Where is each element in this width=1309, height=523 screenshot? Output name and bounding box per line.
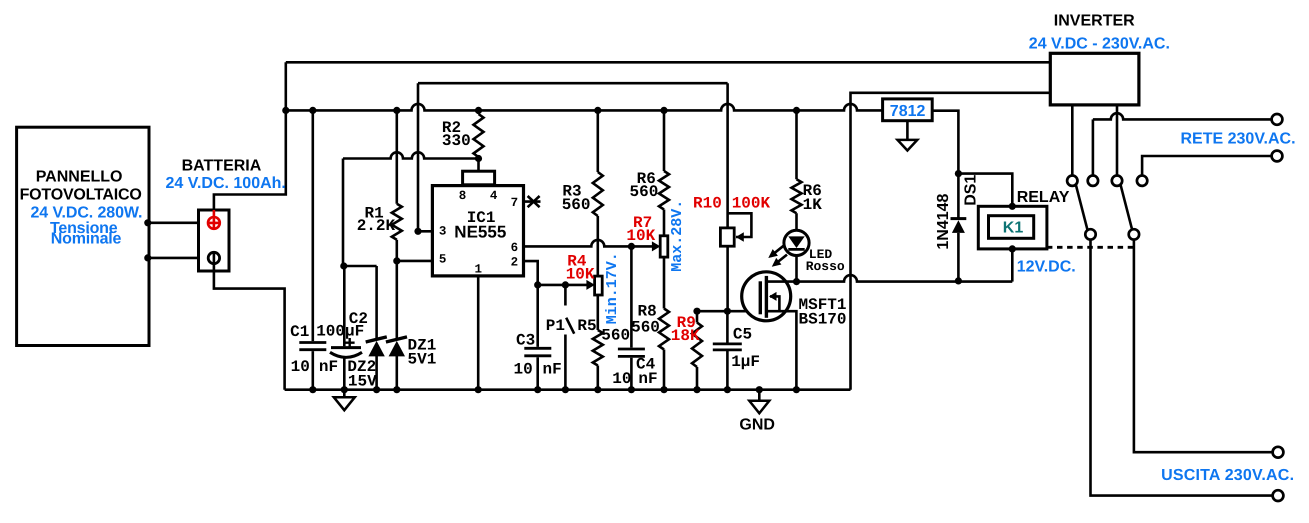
wire MOSFET gate line (697, 310, 760, 313)
svg-text:C5: C5 (733, 326, 752, 344)
svg-text:100K: 100K (732, 195, 771, 213)
switch blade 1 (1076, 185, 1088, 230)
pushbutton P1 (565, 285, 574, 390)
svg-text:C3: C3 (516, 332, 535, 350)
svg-text:7: 7 (511, 196, 519, 210)
node DZ2 feed junction (340, 262, 347, 269)
svg-text:5: 5 (439, 252, 447, 266)
svg-text:C1: C1 (290, 323, 309, 341)
node R2 bottom junction (475, 155, 482, 162)
capacitor C4 column (630, 246, 633, 389)
wire RETE lower line (1142, 156, 1271, 175)
svg-text:560: 560 (601, 327, 630, 345)
wire battery-positive riser x=286 (214, 62, 286, 210)
wire pin1 to ground bus (477, 276, 480, 390)
svg-text:GND: GND (739, 417, 775, 434)
svg-text:560: 560 (562, 196, 591, 214)
wire negative return riser x=850.5 to inverter (851, 93, 1051, 390)
mechanical link (dashed) (1047, 246, 1134, 249)
ground symbol GND (758, 390, 761, 401)
svg-text:nF: nF (543, 361, 562, 379)
svg-text:BATTERIA: BATTERIA (182, 158, 262, 175)
node gate line junctions (693, 308, 700, 315)
wire main +24V bus y=110 with hops (286, 104, 883, 111)
svg-text:560: 560 (630, 183, 659, 201)
resistor R9 (696, 311, 699, 390)
svg-text:PANNELLO: PANNELLO (36, 169, 123, 186)
relay K1 outer box (978, 206, 1047, 249)
battery positive terminal (red) (213, 210, 216, 217)
ground symbol below 7812 (906, 121, 909, 140)
node pin5 junction (393, 257, 400, 264)
svg-text:R5: R5 (577, 317, 596, 335)
svg-text:15V: 15V (348, 372, 377, 390)
svg-text:1: 1 (475, 263, 483, 277)
svg-text:INVERTER: INVERTER (1054, 13, 1135, 30)
wire pin3 riser x=418 (418, 83, 432, 231)
capacitor C2 (electrolytic) (331, 346, 361, 349)
capacitor C3 column (536, 285, 539, 390)
wire LED cathode to drain node (795, 256, 798, 282)
svg-text:2.2K: 2.2K (357, 217, 396, 235)
svg-text:8: 8 (459, 189, 467, 203)
svg-text:RELAY: RELAY (1017, 189, 1070, 206)
svg-text:Min.17V.: Min.17V. (604, 252, 621, 324)
wire bus y=83 from pin3 riser to R10 column (418, 82, 728, 85)
battery negative terminal (208, 252, 219, 263)
wire reset line y=158 with hops (343, 152, 479, 158)
ground symbol below C2 (343, 390, 346, 398)
svg-text:5V1: 5V1 (408, 350, 437, 368)
svg-text:10K: 10K (566, 266, 595, 284)
wire pin2 stub (524, 261, 538, 285)
svg-text:Rosso: Rosso (806, 259, 845, 274)
wire pin5 stub (397, 260, 433, 263)
svg-text:P1: P1 (546, 317, 565, 335)
terminal RETE upper (1272, 114, 1283, 125)
svg-text:nF: nF (319, 358, 338, 376)
capacitor C1 column (311, 110, 314, 389)
transistor MSFT1 BS170 (MOSFET) (742, 272, 791, 321)
svg-text:nF: nF (638, 370, 657, 388)
capacitor C5 column (726, 311, 729, 390)
svg-text:18K: 18K (671, 327, 700, 345)
wire ground bus y=389.7 (285, 388, 851, 391)
svg-text:DS1: DS1 (963, 175, 980, 206)
battery box (199, 210, 230, 271)
resistor R3 column, trimmer R4, resistor R5 (596, 110, 599, 389)
regulator 7812 box (883, 99, 933, 121)
wire USCITA lower leg (1091, 240, 1273, 496)
svg-text:10K: 10K (626, 227, 655, 245)
switch contact circles (lower row) (1085, 229, 1095, 239)
inverter box (1050, 53, 1139, 105)
wire pin7 no-connect stub (524, 200, 541, 203)
wire RETE upper line (1092, 119, 1095, 175)
trimmer R10 column (726, 83, 729, 311)
wire panel to battery minus (147, 257, 209, 260)
svg-text:10: 10 (612, 370, 631, 388)
node panel output junctions (144, 219, 151, 226)
svg-text:BS170: BS170 (799, 311, 847, 329)
wire top supply bus y=62 (286, 61, 1051, 64)
svg-text:FOTOVOLTAICO: FOTOVOLTAICO (20, 187, 142, 204)
svg-text:12V.DC.: 12V.DC. (1017, 259, 1076, 276)
node pin3 corner (414, 228, 421, 235)
resistor R6 column, trimmer R7, resistor R8 (663, 110, 666, 389)
svg-text:K1: K1 (1003, 220, 1024, 237)
svg-text:24 V.DC - 230V.AC.: 24 V.DC - 230V.AC. (1029, 35, 1170, 52)
node ground bus junctions (309, 386, 316, 393)
solar panel box PANNELLO FOTOVOLTAICO (17, 127, 149, 345)
wire R2 top lead (477, 110, 480, 114)
zener diode DZ2 (375, 356, 378, 390)
diode DS1 1N4148 (951, 217, 967, 220)
wire battery minus to ground bus (214, 264, 285, 390)
svg-text:Max.28V.: Max.28V. (669, 200, 686, 272)
svg-text:1K: 1K (803, 196, 823, 214)
resistor R2 (474, 114, 484, 157)
switch blade 2 (1121, 185, 1133, 230)
terminal USCITA lower (1273, 490, 1284, 501)
LED Rosso symbol (784, 230, 809, 255)
svg-text:100µF: 100µF (316, 322, 364, 340)
wire 7812 output to DS1/relay (932, 111, 958, 219)
svg-text:3: 3 (439, 224, 447, 238)
node junctions on +24V bus (282, 107, 289, 114)
svg-text:1µF: 1µF (731, 353, 760, 371)
wire relay coil top link (958, 174, 1012, 207)
node relay coil junctions (1009, 203, 1016, 210)
wire drain bus to relay coil (797, 275, 1013, 282)
op-amp/timer IC1 NE555 notch (463, 171, 495, 185)
svg-text:NE555: NE555 (454, 223, 506, 242)
svg-text:7812: 7812 (890, 103, 926, 120)
svg-text:RETE 230V.AC.: RETE 230V.AC. (1181, 131, 1296, 148)
wire pin6 line to R7 wiper (524, 240, 653, 247)
resistor R6 (1K) column (795, 110, 798, 230)
svg-text:USCITA 230V.AC.: USCITA 230V.AC. (1161, 467, 1294, 484)
node pin6/C4 junction (628, 243, 635, 250)
svg-text:24 V.DC. 280W.: 24 V.DC. 280W. (31, 204, 143, 221)
node drain junction (793, 278, 800, 285)
wire R2 bottom to IC notch (477, 157, 480, 171)
svg-text:1N4148: 1N4148 (935, 193, 952, 249)
wire USCITA upper leg (1134, 240, 1273, 453)
wire pin2 wiper line to R4 (538, 284, 589, 287)
terminal RETE lower (1272, 151, 1283, 162)
terminal USCITA upper (1273, 447, 1284, 458)
node DS1 junctions (955, 170, 962, 177)
svg-text:330: 330 (442, 132, 471, 150)
wire C2/DZ2 feed x=343 (343, 159, 377, 347)
resistor R1 column + zener DZ1 (395, 110, 398, 389)
svg-text:R10: R10 (693, 195, 722, 213)
wire inverter AC output legs (1072, 105, 1117, 175)
svg-text:2: 2 (511, 255, 519, 269)
svg-text:10: 10 (514, 361, 533, 379)
switch contact circles (upper row) (1067, 176, 1077, 186)
svg-text:4: 4 (490, 189, 498, 203)
svg-text:Nominale: Nominale (51, 230, 122, 247)
svg-text:6: 6 (511, 241, 519, 255)
wire panel to battery plus (147, 222, 208, 225)
svg-text:560: 560 (631, 319, 660, 337)
relay K1 inner box (989, 216, 1034, 239)
svg-text:10: 10 (291, 358, 310, 376)
node wiper line junctions (534, 281, 541, 288)
op-amp/timer IC1 NE555 body (432, 186, 523, 276)
svg-text:24 V.DC. 100Ah.: 24 V.DC. 100Ah. (166, 175, 286, 192)
